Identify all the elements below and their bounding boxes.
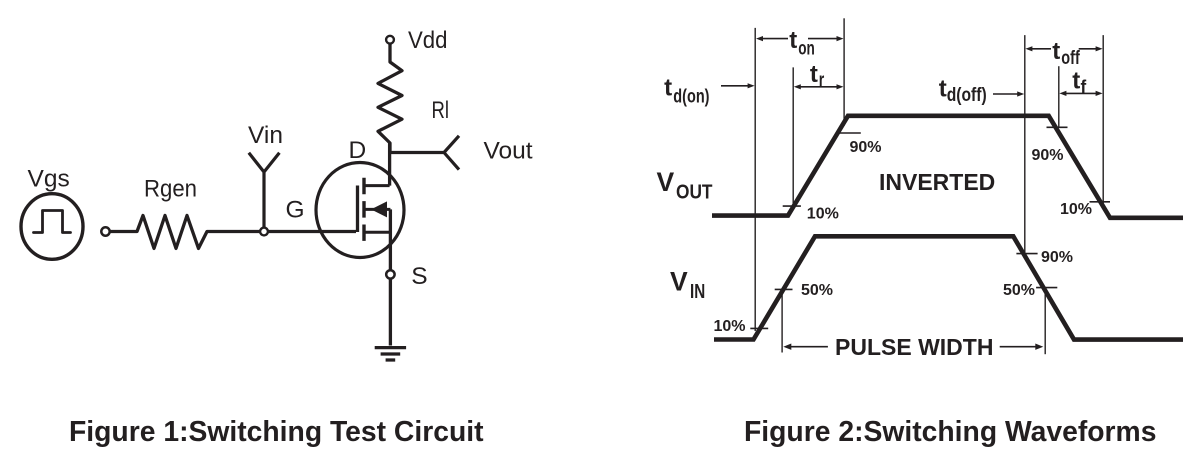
svg-text:Figure 2:Switching Waveforms: Figure 2:Switching Waveforms [744,415,1156,447]
svg-text:50%: 50% [1003,282,1035,299]
svg-text:90%: 90% [850,139,882,156]
svg-text:Vin: Vin [248,122,283,149]
svg-text:90%: 90% [1032,147,1064,164]
svg-text:10%: 10% [714,318,746,335]
svg-text:V: V [657,167,675,197]
svg-text:t: t [664,74,672,101]
svg-text:PULSE WIDTH: PULSE WIDTH [835,334,993,360]
svg-text:on: on [798,39,815,60]
svg-text:d(on): d(on) [673,86,709,107]
svg-text:Vdd: Vdd [408,27,448,54]
svg-text:D: D [349,137,367,164]
svg-text:t: t [789,27,797,54]
svg-text:t: t [1072,68,1080,95]
svg-text:90%: 90% [1041,249,1073,266]
svg-text:Vout: Vout [484,138,533,165]
svg-text:10%: 10% [807,205,839,222]
svg-text:S: S [411,263,427,290]
svg-text:r: r [819,70,825,91]
svg-text:t: t [1052,38,1060,65]
svg-text:G: G [286,197,305,224]
svg-text:Figure 1:Switching Test Circui: Figure 1:Switching Test Circuit [69,415,484,447]
svg-text:t: t [810,61,818,88]
svg-text:d(off): d(off) [947,85,987,106]
svg-text:t: t [939,75,947,102]
svg-text:Rl: Rl [432,97,450,124]
svg-text:V: V [670,266,688,296]
svg-text:50%: 50% [801,282,833,299]
svg-text:IN: IN [690,281,705,303]
svg-text:f: f [1081,77,1087,98]
svg-text:10%: 10% [1060,201,1092,218]
svg-text:off: off [1061,48,1080,69]
svg-text:Vgs: Vgs [28,166,70,193]
svg-text:OUT: OUT [676,182,713,204]
svg-text:Rgen: Rgen [144,176,197,203]
svg-text:INVERTED: INVERTED [879,169,995,195]
